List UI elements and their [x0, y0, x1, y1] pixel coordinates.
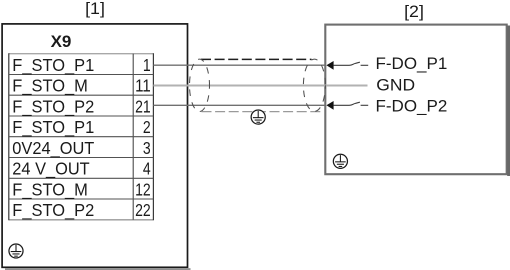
cable shield right ellipse [303, 59, 325, 111]
wire F_STO_P2 (pin 21) to [2] [153, 104, 326, 106]
svg-text:F_STO_P2: F_STO_P2 [12, 200, 94, 220]
table right edge [152, 53, 154, 220]
connector X9 terminal table [9, 53, 154, 220]
svg-text:11: 11 [135, 76, 151, 96]
svg-text:24 V_OUT: 24 V_OUT [12, 159, 90, 179]
svg-text:GND: GND [376, 76, 415, 95]
svg-text:F_STO_M: F_STO_M [12, 76, 88, 96]
F-DO_P1 lead inside [2] [333, 62, 360, 65]
svg-text:F-DO_P2: F-DO_P2 [376, 97, 448, 116]
arrowhead into F-DO_P2 [326, 101, 333, 110]
svg-text:F_STO_P2: F_STO_P2 [12, 96, 94, 116]
table top edge [9, 53, 154, 55]
pin row F_STO_M / 12 [12, 179, 150, 199]
table left edge [8, 53, 10, 220]
svg-text:0V24_OUT: 0V24_OUT [12, 138, 94, 158]
cable shield left ellipse [190, 59, 210, 111]
pin row F_STO_M / 11 [12, 76, 150, 96]
svg-text:12: 12 [135, 179, 151, 199]
svg-text:F-DO_P1: F-DO_P1 [376, 54, 448, 73]
device box [1] shadow [5, 268, 191, 270]
F-DO_P2 lead inside [2] [333, 102, 360, 105]
svg-text:F_STO_P1: F_STO_P1 [12, 55, 94, 75]
ground symbol in box [2] [333, 154, 347, 168]
svg-text:2: 2 [143, 117, 151, 137]
pin row F_STO_P1 / 2 [12, 117, 150, 137]
wire GND (pin 11) to [2] [153, 85, 367, 87]
device box [2] [325, 25, 506, 175]
svg-text:1: 1 [143, 55, 151, 75]
table column divider [132, 54, 134, 220]
device box [2] right shadow [507, 26, 510, 177]
device box [1] [2, 24, 187, 267]
svg-text:[2]: [2] [404, 2, 424, 21]
pin row F_STO_P2 / 21 [12, 96, 150, 116]
arrowhead into F-DO_P1 [326, 61, 333, 70]
svg-text:[1]: [1] [85, 0, 105, 18]
pin row 24 V_OUT / 4 [12, 159, 151, 179]
pin row F_STO_P1 / 1 [12, 55, 150, 75]
table row lines [9, 75, 154, 200]
table bottom edge [9, 219, 154, 221]
cable shield bottom dashed line [202, 111, 324, 113]
cable shield top dashed line [201, 58, 312, 60]
shield ground symbol [251, 110, 265, 124]
ground symbol in box [1] [9, 244, 23, 258]
svg-text:22: 22 [135, 200, 151, 220]
svg-text:F_STO_M: F_STO_M [12, 179, 88, 199]
svg-text:21: 21 [135, 96, 151, 116]
svg-text:3: 3 [143, 138, 151, 158]
svg-text:F_STO_P1: F_STO_P1 [12, 117, 94, 137]
pin row 0V24_OUT / 3 [12, 138, 150, 158]
svg-text:4: 4 [143, 159, 151, 179]
svg-text:X9: X9 [51, 32, 72, 51]
pin row F_STO_P2 / 22 [12, 200, 150, 220]
wire F_STO_P1 (pin 1) to [2] [153, 64, 326, 66]
